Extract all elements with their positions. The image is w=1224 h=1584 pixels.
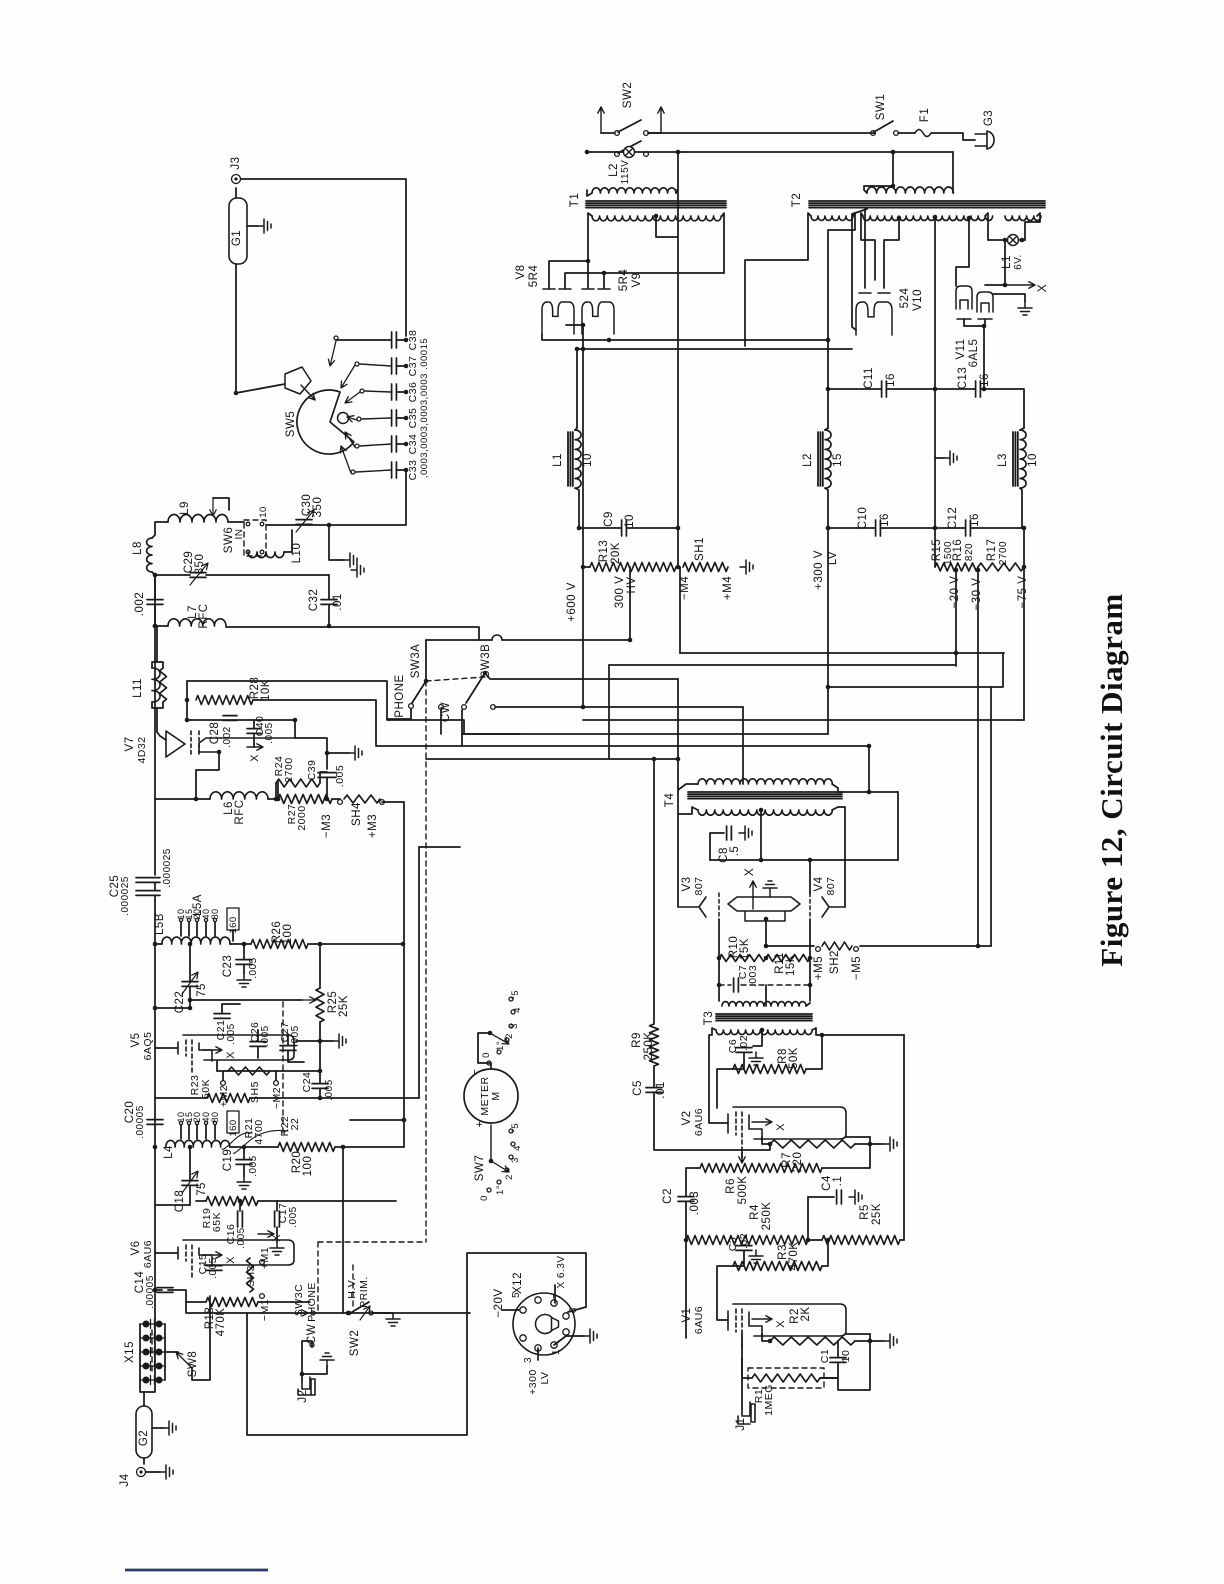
- C29 wires2: [206, 574, 329, 576]
- C22 arrow: [182, 972, 198, 994]
- capacitor C25b: [136, 891, 160, 896]
- jack J1: [738, 1402, 755, 1424]
- resistor R28 10K: [196, 696, 253, 705]
- tube V2 6AU6: [728, 1107, 846, 1151]
- inductor L10: [248, 552, 284, 558]
- junction: [808, 983, 813, 988]
- svg-text:C23: C23: [222, 955, 234, 978]
- L9 right wire: [228, 521, 244, 523]
- svg-text:SH1: SH1: [694, 537, 706, 561]
- inductor L5: [162, 937, 230, 944]
- V5 plate lead: [155, 1047, 178, 1049]
- junction bus687: [826, 685, 831, 690]
- vert 609: [608, 665, 610, 759]
- terminal +M1: [260, 1260, 265, 1265]
- svg-text:SH5: SH5: [249, 1081, 261, 1103]
- svg-text:300 V: 300 V: [614, 576, 626, 609]
- svg-text:15: 15: [832, 453, 844, 467]
- bus sw3c: [186, 1310, 348, 1313]
- resistor R10 15K: [719, 955, 766, 962]
- G2 bot: [143, 1458, 145, 1464]
- C34 contact: [355, 444, 359, 448]
- pin1 wire: [554, 1336, 584, 1345]
- rail -30 drop: [977, 570, 979, 946]
- SW3A phone wire: [387, 709, 411, 719]
- svg-text:L1: L1: [552, 453, 564, 467]
- T4 tap: [759, 808, 764, 813]
- terminal -M3: [338, 800, 343, 805]
- ground X12: [584, 1329, 597, 1343]
- svg-text:X: X: [1035, 284, 1049, 293]
- shunt SH5: [228, 1067, 270, 1075]
- resistor R3 470K: [733, 1262, 822, 1271]
- cathode lead: [765, 921, 767, 946]
- capacitor C20: [147, 1120, 163, 1125]
- terminal +M2: [221, 1081, 226, 1086]
- C1 wires: [837, 1341, 839, 1357]
- L4 tap wire 40: [205, 1125, 207, 1139]
- junction: [768, 1142, 773, 1147]
- T2 prim left lead: [864, 186, 893, 193]
- T1 sec left lead: [588, 213, 592, 261]
- C27 stub up: [287, 1034, 289, 1045]
- V8 terminal 1: [543, 288, 555, 290]
- C2 down: [685, 1202, 687, 1240]
- junction: [976, 944, 981, 949]
- SW2 contact a1: [615, 131, 620, 136]
- R19 left: [196, 1200, 206, 1202]
- svg-text:.01: .01: [655, 1081, 667, 1099]
- SW7a pivot: [488, 1031, 493, 1036]
- T3 sec right: [812, 1028, 904, 1035]
- V6 grid wire: [209, 1296, 211, 1310]
- tube V6 6AU6 heater X arrow: [202, 1252, 222, 1258]
- L7 right bus: [226, 627, 479, 640]
- svg-text:6AU6: 6AU6: [142, 1240, 154, 1268]
- C11 wires: [828, 388, 881, 390]
- capacitor C18 75: [182, 1181, 198, 1186]
- L5 tap 40: [204, 918, 207, 921]
- svg-text:C32: C32: [308, 589, 320, 612]
- svg-text:C36: C36: [407, 382, 419, 403]
- resistor R26 100: [251, 940, 308, 949]
- SH2 right: [860, 945, 991, 947]
- svg-text:R15: R15: [931, 539, 943, 562]
- ground SW2b: [386, 1313, 400, 1326]
- left rail upper: [154, 575, 156, 799]
- junction: [764, 944, 769, 949]
- inductor L3 core: [1013, 432, 1018, 486]
- T3 right rail: [903, 1035, 905, 1240]
- T1 tap junction: [654, 214, 659, 219]
- svg-text:.005: .005: [334, 765, 346, 787]
- svg-text:500K: 500K: [737, 1176, 749, 1205]
- +M2 stub: [222, 1071, 224, 1080]
- svg-text:6AQ5: 6AQ5: [142, 1032, 154, 1061]
- SW1 contact 2: [894, 131, 899, 136]
- svg-text:V11: V11: [955, 338, 967, 359]
- wire R4R3 junction: [807, 1197, 809, 1240]
- wire 1041: [296, 1040, 320, 1042]
- C4 wire: [808, 1196, 834, 1198]
- shunt SH3: [247, 1258, 254, 1292]
- junction: [868, 1142, 873, 1147]
- L4 tap 20: [195, 1121, 198, 1124]
- junction: [575, 347, 580, 352]
- svg-text:820: 820: [964, 543, 975, 561]
- capacitor C27: [280, 1046, 296, 1051]
- junction: [759, 858, 764, 863]
- T2 lead a: [745, 213, 811, 346]
- T3 top center lead: [765, 985, 767, 1006]
- inductor L2 core: [818, 432, 823, 486]
- tank bottom wire2: [266, 524, 329, 526]
- tube V3 807 grid: [718, 893, 720, 919]
- switch SW8 arm: [176, 1352, 192, 1368]
- wire 953 drop: [952, 152, 954, 190]
- resistor R5 25K: [822, 1236, 900, 1245]
- ground R2: [884, 1334, 897, 1348]
- left rail v6b: [154, 1205, 156, 1252]
- svg-text:M: M: [490, 1091, 502, 1100]
- C19 up: [243, 1147, 245, 1159]
- junction: [153, 624, 158, 629]
- C37 stub: [360, 364, 391, 366]
- svg-text:−75 V: −75 V: [1017, 576, 1029, 609]
- svg-text:SW3A: SW3A: [410, 644, 422, 679]
- svg-text:50K: 50K: [788, 1047, 800, 1069]
- wire right drop: [892, 152, 894, 186]
- svg-text:R16: R16: [952, 539, 964, 562]
- jack J4: [137, 1468, 146, 1477]
- resistor R24 2700: [276, 779, 320, 787]
- junction: [293, 718, 298, 723]
- bus 746: [462, 745, 869, 747]
- resistor R16 820: [956, 563, 978, 571]
- T3 tap: [760, 1028, 765, 1033]
- capacitor C35: [392, 410, 397, 426]
- L5 tap wire 20: [196, 922, 198, 936]
- junction: [764, 956, 769, 961]
- T2 secondary 1: [811, 216, 853, 220]
- C27 stub dn: [288, 1051, 304, 1062]
- junction: [954, 568, 959, 573]
- -M2 stub: [275, 1071, 277, 1080]
- svg-text:2700: 2700: [283, 757, 295, 782]
- c18 join: [155, 1204, 190, 1206]
- junction: [933, 215, 938, 220]
- L7 left: [155, 625, 168, 627]
- svg-text:V6: V6: [130, 1240, 142, 1255]
- junction SW5 feed: [234, 391, 239, 396]
- junction: [1003, 283, 1008, 288]
- junction: [628, 638, 633, 643]
- capacitor C37 lead: [397, 365, 406, 367]
- resistor R17 2700: [978, 563, 1024, 571]
- T2 lead c: [861, 213, 875, 280]
- crystal dashes: [151, 1330, 153, 1374]
- L4 tap 160 box: [227, 1111, 239, 1133]
- junction: [242, 942, 247, 947]
- capacitor C37: [392, 358, 397, 374]
- wire hop: [492, 635, 502, 640]
- wire 600 rail: [582, 325, 584, 567]
- c22 join: [155, 1007, 190, 1009]
- wire fil-c: [565, 273, 724, 288]
- SW7b pivot: [489, 1159, 494, 1164]
- terminal -M5: [854, 947, 859, 952]
- junction: [717, 956, 722, 961]
- C10 wires: [828, 527, 875, 529]
- C32 up: [328, 575, 330, 599]
- R6 right: [822, 1144, 870, 1168]
- diode V11a cathode: [956, 286, 972, 309]
- svg-text:20K: 20K: [610, 542, 622, 564]
- capacitor C13: [976, 381, 981, 397]
- capacitor C12: [966, 520, 971, 536]
- C26 stub dn: [257, 1047, 259, 1058]
- switch SW6 box: [244, 520, 266, 556]
- L1 top lead: [575, 349, 577, 430]
- ground C19: [237, 1176, 251, 1189]
- svg-text:16: 16: [879, 513, 891, 527]
- svg-text:−30 V: −30 V: [971, 578, 983, 611]
- V4 grid lead: [809, 919, 811, 1001]
- X arrow V6 region: [258, 1231, 274, 1237]
- capacitor C32: [321, 600, 337, 605]
- inductor L8: [147, 538, 152, 572]
- junction: [676, 150, 681, 155]
- SW2b arrow: [360, 1306, 370, 1320]
- L6 right: [268, 798, 278, 800]
- rotary switch SW5 rotor: [297, 390, 354, 454]
- junction: [820, 1033, 825, 1038]
- L4 tap wire 15: [188, 1125, 190, 1139]
- V2 grid dash lead: [741, 1152, 743, 1158]
- svg-text:C24: C24: [301, 1072, 313, 1093]
- SW3C contact: [311, 1311, 315, 1315]
- C30 arrow: [296, 510, 314, 532]
- svg-text:6AU6: 6AU6: [693, 1108, 705, 1136]
- svg-text:L8: L8: [132, 541, 144, 555]
- SW7a contact 3: [509, 1024, 513, 1028]
- svg-text:100: 100: [302, 1156, 314, 1177]
- junction: [274, 797, 279, 802]
- vert 991: [990, 687, 992, 946]
- svg-text:PHONE: PHONE: [306, 1282, 318, 1322]
- junction: [891, 150, 896, 155]
- left rail v6: [154, 1147, 156, 1205]
- C40 bot stub: [253, 734, 255, 747]
- T4 secondary: [698, 810, 832, 815]
- resistor R18 470K: [206, 1298, 258, 1307]
- svg-text:Figure 12, Circuit Diagram: Figure 12, Circuit Diagram: [1094, 593, 1129, 966]
- svg-text:V7: V7: [124, 736, 136, 751]
- R24 left drop: [277, 780, 279, 799]
- svg-text:J3: J3: [230, 156, 242, 169]
- C18 dn: [189, 1186, 191, 1205]
- svg-text:2: 2: [504, 1174, 515, 1180]
- svg-text:L3: L3: [997, 453, 1009, 467]
- X arrow V7: [247, 744, 263, 750]
- junction: [868, 1339, 873, 1344]
- T4 sec right lead: [832, 807, 845, 907]
- svg-text:350: 350: [194, 554, 206, 575]
- cathode line V5: [217, 1070, 320, 1072]
- junction: [402, 1118, 407, 1123]
- svg-text:V3: V3: [681, 876, 693, 891]
- svg-text:SW8: SW8: [187, 1351, 199, 1377]
- C1 down: [820, 1363, 838, 1378]
- capacitor C24: [312, 1084, 328, 1089]
- svg-text:.01: .01: [332, 593, 344, 611]
- svg-text:.005: .005: [248, 1155, 259, 1176]
- svg-text:L2: L2: [802, 453, 814, 467]
- SW7b contact 3: [509, 1155, 513, 1159]
- R1 left: [742, 1358, 752, 1378]
- inductor L1 core: [568, 432, 573, 486]
- R8 left: [717, 1069, 733, 1108]
- meter M outline: [464, 1069, 518, 1123]
- svg-text:4: 4: [512, 1007, 523, 1013]
- T1 prim right lead: [676, 190, 677, 193]
- svg-text:SW1: SW1: [875, 94, 887, 120]
- SW7b arm arrow: [491, 1161, 509, 1172]
- T3 sec left: [709, 1028, 716, 1108]
- C32 down: [328, 605, 330, 626]
- junction: [867, 744, 872, 749]
- V1 plate lead: [717, 1305, 728, 1320]
- T4 right drop: [897, 792, 899, 860]
- SW2 arm upper: [618, 120, 641, 132]
- R19 right: [258, 1200, 396, 1202]
- junction: [808, 858, 813, 863]
- wire hv bus mid b: [502, 639, 630, 641]
- svg-text:+600 V: +600 V: [566, 582, 578, 622]
- cathode line: [766, 945, 814, 947]
- junction: [676, 565, 681, 570]
- svg-text:SH2: SH2: [829, 950, 841, 974]
- capacitor C36 node: [404, 390, 409, 395]
- SW3B contact: [462, 705, 467, 710]
- rail -20 drop: [955, 570, 957, 666]
- L9 tap wire: [213, 498, 229, 510]
- ground C3: [749, 1250, 763, 1263]
- plug G3: [975, 131, 994, 149]
- svg-text:0: 0: [479, 1195, 490, 1201]
- V11b top feed: [993, 294, 1025, 302]
- ground V11: [1018, 302, 1032, 315]
- L6 left: [155, 798, 210, 800]
- CW contact: [310, 1343, 314, 1347]
- T3 primary: [722, 1002, 806, 1006]
- svg-text:10K: 10K: [260, 679, 272, 701]
- inductor L4: [166, 1140, 230, 1147]
- wire 1098 line b: [250, 1097, 419, 1099]
- T4 prim right lead: [832, 784, 898, 792]
- tube V3 807 plate: [679, 897, 706, 917]
- junction: [188, 942, 193, 947]
- ground G1: [258, 219, 271, 233]
- C39 down: [326, 778, 328, 799]
- junction: [581, 323, 586, 328]
- L5 tap wire 80: [214, 922, 216, 936]
- wire 1098 line: [155, 1097, 207, 1099]
- svg-text:C12: C12: [947, 507, 959, 530]
- svg-text:X: X: [225, 1256, 237, 1264]
- capacitor C34 lead: [397, 443, 406, 445]
- C25 link: [154, 883, 156, 890]
- svg-text:+300 V: +300 V: [813, 550, 825, 590]
- C35 contact: [357, 417, 361, 421]
- junction: [607, 338, 612, 343]
- svg-text:C5: C5: [632, 1080, 644, 1096]
- vert 743: [742, 707, 744, 784]
- capacitor C9: [622, 520, 627, 536]
- svg-text:R6: R6: [725, 1178, 737, 1194]
- X15 down: [140, 1380, 144, 1392]
- inductor L7 RFC: [168, 619, 226, 626]
- svg-text:75: 75: [196, 983, 208, 997]
- C25 down: [154, 896, 156, 944]
- T3 tap lead: [753, 1030, 762, 1046]
- resistor R9 250K: [650, 1024, 659, 1066]
- capacitor C23: [236, 960, 252, 965]
- C18 arrow: [182, 1171, 198, 1193]
- junction: [318, 1096, 323, 1101]
- C33 contact: [351, 470, 355, 474]
- T2 primary winding: [867, 187, 953, 193]
- svg-text:1°: 1°: [495, 1041, 506, 1051]
- left rail v7: [154, 799, 156, 875]
- svg-text:10: 10: [624, 514, 636, 528]
- V5 cathode drop: [216, 1061, 218, 1071]
- svg-text:2K: 2K: [800, 1306, 812, 1321]
- SW1 contact 1: [871, 131, 876, 136]
- T3 core: [716, 1014, 812, 1021]
- capacitor C2: [678, 1197, 694, 1202]
- R6 left: [686, 1168, 700, 1196]
- mech link lower horizontal: [318, 1241, 426, 1243]
- C17 up: [276, 1201, 278, 1211]
- svg-text:SW7: SW7: [474, 1155, 486, 1181]
- C23 up: [243, 944, 245, 959]
- junction: [1020, 238, 1025, 243]
- svg-text:2700: 2700: [998, 541, 1009, 565]
- SW3A contact CW: [439, 705, 444, 710]
- svg-text:SH4: SH4: [351, 802, 363, 826]
- svg-text:R17: R17: [986, 539, 998, 562]
- capacitor C36: [392, 384, 397, 400]
- L5 tap 160 box: [227, 908, 239, 930]
- junction: [684, 1238, 689, 1243]
- junction: [153, 1288, 158, 1293]
- crystal X15-1: [140, 1320, 165, 1329]
- C4 to R4: [808, 1239, 822, 1241]
- svg-text:65K: 65K: [211, 1212, 223, 1232]
- junction: [188, 1145, 193, 1150]
- C29 arrow: [190, 563, 208, 585]
- wire SW3A feed: [425, 640, 427, 681]
- socket X12 pin 1: [520, 1307, 526, 1313]
- C14 wires: [155, 1252, 162, 1290]
- mech link SW2b vertical: [352, 1265, 354, 1310]
- svg-text:−M2: −M2: [271, 1087, 283, 1109]
- junction: [933, 526, 938, 531]
- svg-text:G1: G1: [231, 230, 243, 246]
- svg-text:.000025: .000025: [162, 848, 173, 888]
- R4 left drop: [685, 1240, 687, 1338]
